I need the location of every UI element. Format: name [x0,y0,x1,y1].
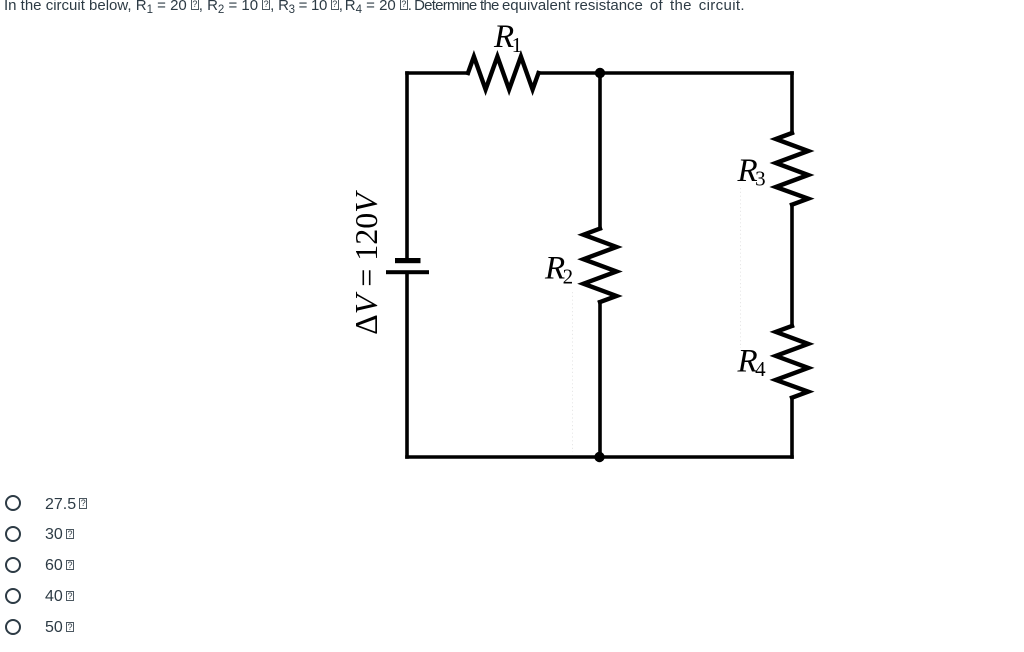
option row 3: 60 [0,557,1,573]
wire top (R1 to right corner) [539,71,793,75]
question text [4,0,745,14]
battery V1 plate long thin (bottom) [386,270,429,274]
wire left vertical lower (battery to bottom) [405,274,409,457]
svg-text:R4: R4 [737,343,767,381]
resistor R3 [776,133,808,205]
wire middle vertical lower (R2 to bottom node) [598,302,602,457]
resistor R1 [468,57,539,90]
wire right vertical middle (R3 to R4) [790,205,794,326]
svg-text:R3: R3 [737,153,766,191]
resistor R2 [584,229,617,303]
wire bottom horizontal [407,455,792,459]
option row 5: 50 [0,619,1,635]
faint grid dotted line near R2 [572,292,574,452]
option row 1: 27.5 [0,495,1,511]
wire top-left horizontal (battery+ to R1) [407,71,468,75]
resistor R4 [776,326,808,398]
wire left vertical upper (battery to top) [405,73,409,258]
node junction bottom (R2/bottom wire) [594,452,604,462]
battery V1 plate short thick (top) [395,258,421,263]
wire right vertical lower (R4 to bottom corner) [790,398,794,457]
node junction top (R1/R2/right branch) [595,68,605,78]
faint grid dotted line near R3/R4 [740,188,742,348]
svg-text:ΔV = 120V: ΔV = 120V [348,190,384,335]
wire middle vertical upper (node to R2) [598,73,602,229]
svg-text:R2: R2 [544,251,573,289]
svg-text:R1: R1 [493,19,522,57]
option row 2: 30 [0,526,1,542]
option row 4: 40 [0,588,1,604]
wire right vertical upper (top corner to R3) [790,73,794,133]
